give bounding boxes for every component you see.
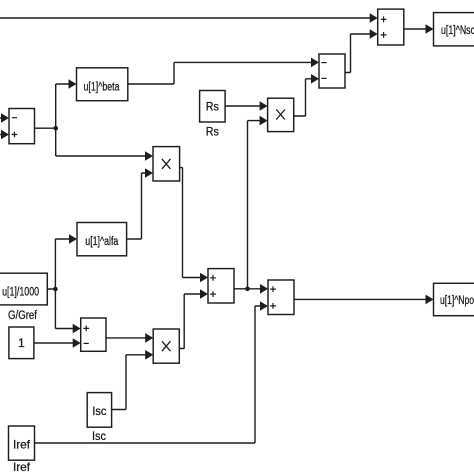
svg-text:u[1]^Npo: u[1]^Npo xyxy=(440,295,474,307)
svg-text:u[1]^alfa: u[1]^alfa xyxy=(85,236,118,248)
svg-text:u[1]^beta: u[1]^beta xyxy=(84,82,120,94)
svg-text:Iref: Iref xyxy=(13,460,31,474)
svg-text:Rs: Rs xyxy=(206,100,219,114)
svg-text:1: 1 xyxy=(18,336,25,350)
svg-text:Rs: Rs xyxy=(206,125,219,139)
svg-text:Isc: Isc xyxy=(92,404,106,418)
svg-text:u[1]^Nsc: u[1]^Nsc xyxy=(441,25,474,37)
svg-text:u[1]/1000: u[1]/1000 xyxy=(2,287,39,299)
svg-text:Iref: Iref xyxy=(13,438,31,452)
svg-text:G/Gref: G/Gref xyxy=(8,310,38,322)
svg-text:Isc: Isc xyxy=(92,429,106,443)
